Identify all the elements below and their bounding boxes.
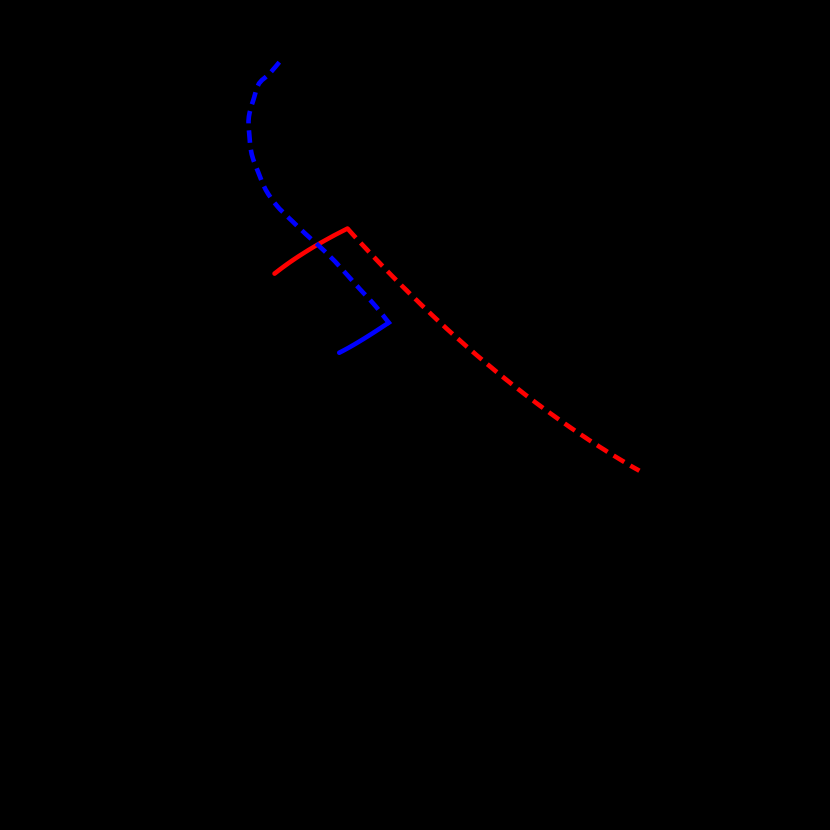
blue dashed arc path bbox=[249, 62, 389, 324]
red solid trajectory segment bbox=[275, 229, 348, 274]
red dashed predicted path bbox=[348, 229, 640, 471]
blue solid trajectory tail bbox=[339, 323, 389, 353]
